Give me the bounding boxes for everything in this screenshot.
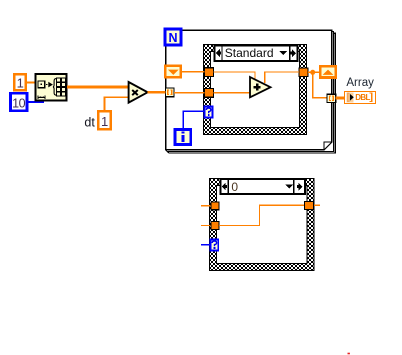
- Array DBL indicator: [345, 92, 376, 104]
- stray red dot artifact: [348, 353, 350, 355]
- case structure 2 border: [210, 179, 315, 271]
- wire: multiply output to loop [] tunnel: [148, 91, 166, 94]
- wire: case1 T1 to add input1: [213, 72, 299, 93]
- wire: case1 output junction to shift register and [] tunnel: [308, 72, 327, 98]
- case 1 right tunnel: [299, 68, 308, 77]
- for loop page-fold diagonal: [324, 142, 332, 150]
- case 2 selector ? tunnel with stub: [201, 244, 211, 246]
- i iteration terminal: [175, 130, 191, 145]
- wire: dt constant to multiply: [105, 97, 129, 111]
- svg-text:10: 10: [12, 96, 25, 110]
- case 2 right tunnel with stub: [314, 204, 320, 206]
- wire: constant 1 to ramp icon: [26, 82, 36, 84]
- for loop N (stacked frames with page fold): [165, 30, 336, 154]
- case 2 left tunnel T2 with stub: [201, 225, 211, 227]
- svg-text:DBL: DBL: [355, 93, 370, 102]
- svg-text:1: 1: [101, 114, 108, 129]
- svg-text:1: 1: [17, 76, 24, 91]
- svg-text:N: N: [168, 31, 177, 45]
- right shift register (up arrow): [320, 66, 336, 77]
- case 2 selector label "0": [220, 179, 305, 194]
- numeric constant 1 (top): [14, 74, 26, 90]
- svg-text:Standard: Standard: [225, 46, 274, 60]
- wire: constant 10 to ramp icon: [27, 101, 44, 103]
- wire: i to ? tunnel: [183, 111, 205, 130]
- numeric constant 10: [11, 93, 27, 110]
- N count terminal: [165, 29, 181, 45]
- svg-text:Array: Array: [346, 77, 374, 89]
- loop left [] tunnel: [165, 88, 174, 97]
- case 2 left tunnel T1 with stub: [201, 205, 211, 207]
- svg-text:dt: dt: [84, 115, 95, 129]
- left shift register (down arrow): [165, 66, 181, 78]
- Ramp Pattern VI icon: [36, 74, 67, 101]
- wire: loop right [] tunnel to Array indicator (thick): [336, 96, 345, 99]
- dt constant 1: [98, 111, 110, 129]
- add node U2: [250, 77, 271, 97]
- case 1 selector ? tunnel: [205, 106, 213, 117]
- svg-text:0: 0: [231, 180, 238, 194]
- case 1 left tunnel T2 (array input): [204, 89, 213, 98]
- case 1 left tunnel T1 (shift reg input): [204, 68, 213, 77]
- junction dot: [310, 70, 315, 75]
- wire: ramp icon to multiply (thick array wire): [67, 86, 129, 89]
- wire: [] tunnel to case1 T2: [174, 92, 204, 94]
- wire: case2 T2 to right tunnel (step up): [219, 205, 305, 225]
- case 1 selector label "Standard": [215, 45, 298, 60]
- wire: left SR to case1 T1: [181, 71, 204, 73]
- multiply node U1: [129, 82, 148, 103]
- case structure 1 border: [204, 45, 307, 135]
- loop right [] tunnel: [327, 94, 336, 102]
